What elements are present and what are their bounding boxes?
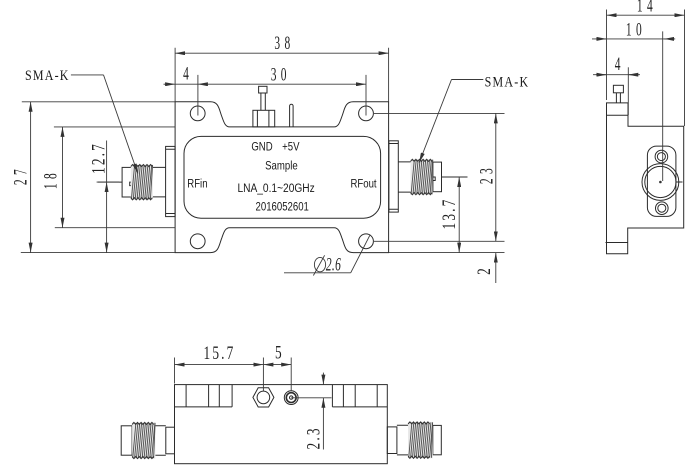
- side view ear plate line bottom: [606, 242, 628, 244]
- svg-text:2.6: 2.6: [326, 255, 341, 275]
- label plate rounded rect: [184, 136, 381, 218]
- dim text 2: [475, 268, 495, 275]
- bottom dim 15.7 line: [175, 364, 264, 366]
- bottom dim 15.7 extension: [174, 358, 176, 384]
- side dim 14 extension lines: [607, 10, 685, 127]
- side dim 10 line: [592, 38, 675, 40]
- svg-text:10: 10: [626, 20, 646, 40]
- dim 13.7 line: [458, 177, 460, 253]
- left SMA threads: [131, 165, 153, 200]
- side dim 4 extension: [627, 67, 629, 115]
- bottom dim 2.3 upper arrow: [322, 373, 324, 385]
- bottom right SMA barrel: [397, 425, 408, 455]
- side dim text 14: [637, 0, 657, 16]
- SMA-K label left: [25, 67, 70, 84]
- dim text 4: [183, 64, 189, 84]
- svg-text:5: 5: [275, 344, 282, 364]
- dim text 23: [477, 164, 497, 184]
- bottom left SMA barrel: [155, 426, 166, 455]
- side view bottom screw hole: [656, 202, 669, 215]
- dim 27 line: [30, 102, 32, 253]
- hole callout dia 2.6: [284, 236, 370, 276]
- bottom left SMA threads: [132, 422, 155, 458]
- flange bottom right extension: [389, 252, 505, 254]
- svg-text:2.3: 2.3: [305, 426, 325, 449]
- left SMA flange plate: [166, 146, 176, 216]
- DC feedthrough stem: [261, 93, 265, 110]
- dim 30 line: [198, 83, 366, 85]
- right SMA barrel: [398, 162, 410, 192]
- bottom dim 5 extensions: [263, 358, 291, 392]
- dim 38 extension lines: [175, 48, 389, 102]
- bottom view ear strip line: [175, 406, 388, 408]
- dim text 27: [11, 165, 31, 185]
- side dim 10 extension to connector center: [662, 31, 664, 181]
- bottom dim text 5: [275, 344, 282, 364]
- bottom dim 2.3 lower arrow: [322, 398, 324, 450]
- side view SMA barrel circle: [642, 164, 679, 201]
- svg-text:18: 18: [41, 169, 61, 189]
- right SMA flange plate: [389, 141, 398, 212]
- bottom view body rect: [175, 385, 388, 464]
- bottom right SMA threads: [408, 422, 433, 458]
- svg-text:23: 23: [477, 164, 497, 184]
- right SMA center pin step: [432, 177, 436, 181]
- svg-text:RFout: RFout: [350, 177, 376, 190]
- mounting hole bottom-right: [359, 234, 374, 249]
- svg-text:38: 38: [274, 33, 294, 53]
- bottom dim 5 line: [263, 364, 291, 366]
- svg-text:Sample: Sample: [265, 159, 298, 172]
- dim text 30: [271, 65, 291, 85]
- bottom left SMA flange plate: [166, 427, 175, 454]
- dim 27 extension lines: [21, 102, 175, 253]
- dim 18 line: [62, 127, 64, 228]
- bottom view hex terminal: [253, 388, 274, 407]
- side dim 4 line: [593, 74, 640, 76]
- dim 38 line: [175, 52, 389, 54]
- mounting hole top-left: [190, 106, 205, 121]
- svg-text:+5V: +5V: [282, 140, 300, 153]
- left SMA barrel: [153, 167, 166, 197]
- bottom dim text 2.3: [305, 426, 325, 449]
- svg-text:27: 27: [11, 165, 31, 185]
- dim 12.7 line upper extension: [106, 141, 108, 183]
- svg-text:2: 2: [475, 268, 495, 275]
- dim text 12.7: [90, 142, 110, 174]
- left SMA center line stub: [98, 181, 122, 183]
- side view ear plate line top: [607, 114, 629, 116]
- svg-text:RFin: RFin: [187, 177, 207, 190]
- label plate text serial: [256, 200, 309, 213]
- side view feedthrough cap: [613, 85, 623, 93]
- dim 4/30 extension lines: [198, 75, 366, 116]
- side view center dot: [659, 181, 662, 184]
- SMA-K leader left: [71, 75, 138, 174]
- small pin: [290, 104, 294, 127]
- bottom left SMA nut: [121, 426, 132, 455]
- side view SMA flange face: [647, 146, 676, 216]
- side view top screw hole: [655, 150, 668, 163]
- svg-text:15.7: 15.7: [204, 344, 236, 364]
- bottom right SMA flange plate: [387, 427, 397, 454]
- dim 12.7 center tick: [97, 181, 120, 183]
- side dim text 10: [626, 20, 646, 40]
- mounting hole bottom-left: [190, 234, 205, 249]
- svg-text:4: 4: [183, 64, 189, 84]
- side dim text 4: [615, 54, 621, 74]
- label plate text LNA: [237, 182, 315, 195]
- svg-text:12.7: 12.7: [90, 142, 110, 174]
- left SMA center pin step: [130, 182, 134, 186]
- svg-text:30: 30: [271, 65, 291, 85]
- label plate text RFin: [187, 177, 207, 190]
- dim text 18: [41, 169, 61, 189]
- right SMA center line stub: [442, 176, 468, 178]
- label plate text RFout: [350, 177, 376, 190]
- dim 12.7 line: [106, 182, 108, 253]
- SMA-K label right: [485, 73, 530, 90]
- right SMA threads: [411, 159, 433, 194]
- side view outline: [607, 103, 684, 254]
- dim 23 extension lines: [374, 113, 505, 241]
- bottom view ear edges: [186, 385, 377, 407]
- dim text 38: [274, 33, 294, 53]
- svg-text:SMA-K: SMA-K: [25, 67, 70, 84]
- left SMA nut: [122, 167, 132, 197]
- DC feedthrough base: [253, 110, 275, 127]
- svg-text:GND: GND: [251, 140, 272, 153]
- svg-text:4: 4: [615, 54, 621, 74]
- dim text 13.7: [440, 198, 460, 230]
- bottom view pin terminal: [284, 391, 298, 405]
- svg-text:SMA-K: SMA-K: [485, 73, 530, 90]
- label plate text +5V: [282, 140, 300, 153]
- dim 4 line: [164, 83, 176, 85]
- label plate text GND: [251, 140, 272, 153]
- bottom dim 2.3 center stub: [291, 397, 331, 399]
- mounting hole top-right: [359, 106, 374, 121]
- right SMA nut: [433, 162, 442, 192]
- bottom right SMA nut: [433, 425, 442, 454]
- side view center tick: [677, 181, 683, 183]
- svg-text:LNA_0.1~20GHz: LNA_0.1~20GHz: [237, 182, 315, 195]
- dim 23 line: [495, 113, 497, 241]
- svg-text:2016052601: 2016052601: [256, 200, 309, 213]
- svg-text:14: 14: [637, 0, 657, 16]
- SMA-K leader right: [419, 80, 483, 163]
- bottom dim text 15.7: [204, 344, 236, 364]
- side view feedthrough stem: [616, 93, 620, 103]
- dim 2 arrow line: [495, 253, 497, 283]
- front view flange/body outline: [175, 102, 389, 253]
- DC feedthrough cap: [259, 86, 267, 93]
- side dim 14 line: [607, 14, 685, 16]
- dim 18 extension lines: [54, 127, 175, 228]
- label plate text Sample: [265, 159, 298, 172]
- svg-text:13.7: 13.7: [440, 198, 460, 230]
